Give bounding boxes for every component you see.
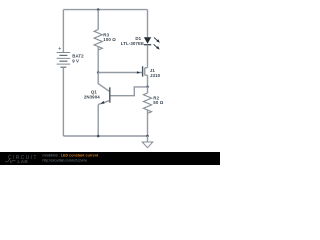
wire LED cathode to JFET drain xyxy=(147,45,149,68)
footer text line 1 xyxy=(43,154,100,158)
transistor J1 JFET xyxy=(143,66,148,76)
footer text line 2 xyxy=(43,158,88,162)
wire R3 bottom lead to gate node xyxy=(97,47,99,73)
node S junction dot xyxy=(146,86,149,89)
wire Q1 collector lead xyxy=(98,73,109,92)
battery BAT2 xyxy=(57,47,71,67)
label D1 LTL-307EE xyxy=(121,36,144,46)
wire top rail xyxy=(63,9,147,11)
wire LED top lead from rail xyxy=(147,10,149,38)
svg-text:BAT2: BAT2 xyxy=(72,53,84,58)
wire battery top lead xyxy=(62,10,64,53)
wire Q1 base to node S xyxy=(110,87,147,96)
resistor R3 xyxy=(94,30,102,50)
node junction dot top rail / R3 xyxy=(97,8,100,11)
svg-text:100 Ω: 100 Ω xyxy=(103,37,116,42)
node emitter/bottom rail junction dot xyxy=(97,135,100,138)
footer banner xyxy=(0,152,220,165)
wire R2 bottom lead xyxy=(147,110,149,136)
wire R3 top lead xyxy=(97,10,99,30)
wire JFET source down to node S xyxy=(147,75,149,87)
label R3 100 Ohm xyxy=(103,32,116,42)
label R2 50 Ohm xyxy=(153,96,163,106)
svg-text:mrobbins : LED constant curren: mrobbins : LED constant current xyxy=(43,154,100,158)
diode D1 LED xyxy=(144,37,160,49)
node bottom-right junction dot xyxy=(146,135,149,138)
resistor R2 xyxy=(143,93,151,113)
svg-text:9 V: 9 V xyxy=(72,59,79,64)
svg-text:http://circuitlab.com/c/2c2vme: http://circuitlab.com/c/2c2vme xyxy=(43,158,88,162)
svg-text:LAB: LAB xyxy=(18,159,29,164)
ground xyxy=(142,136,153,148)
svg-text:2N3904: 2N3904 xyxy=(84,94,100,99)
label Q1 2N3904 xyxy=(84,90,100,100)
svg-text:J310: J310 xyxy=(150,73,161,78)
wire Q1 emitter lead xyxy=(97,105,99,137)
svg-text:LTL-307EE: LTL-307EE xyxy=(121,41,144,46)
wire R2 top lead xyxy=(147,87,149,93)
svg-text:50 Ω: 50 Ω xyxy=(153,100,163,105)
label BAT2 9V xyxy=(72,53,84,63)
gate arrowhead of J1 xyxy=(137,71,140,74)
node gate junction dot xyxy=(97,71,100,74)
wire battery bottom lead xyxy=(62,67,64,136)
footer CircuitLab logo xyxy=(5,155,38,164)
wire gate horizontal xyxy=(98,72,142,74)
transistor Q1 2N3904 xyxy=(98,87,110,104)
label J1 J310 xyxy=(150,68,161,78)
wire bottom rail xyxy=(63,135,147,137)
